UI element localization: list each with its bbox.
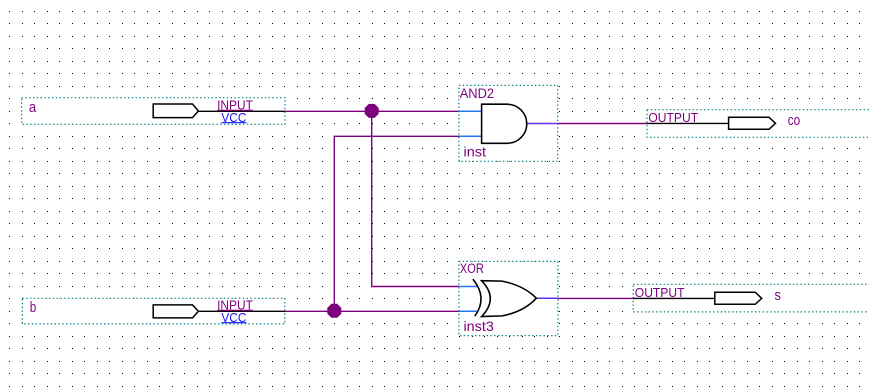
input pin b [22,298,285,325]
svg-text:XOR: XOR [460,261,484,276]
svg-text:AND2: AND2 [460,85,495,101]
svg-text:OUTPUT: OUTPUT [648,110,698,125]
wire: branch from node A down to XOR top input [372,111,460,286]
and-gate U1 AND2 [459,85,558,161]
wire: input b horizontal to XOR bottom input [285,310,459,312]
wire: XOR output to OUTPUT s pin [558,297,633,299]
wire: branch from node B up to AND bottom input [334,136,459,311]
svg-text:inst3: inst3 [464,318,495,334]
xor-gate U2 XOR [459,261,558,336]
wire: input a horizontal to AND top input [285,110,459,112]
svg-text:OUTPUT: OUTPUT [635,285,685,300]
output pin s [633,284,869,312]
svg-text:b: b [30,300,37,316]
node A junction dot [365,104,379,118]
svg-text:inst: inst [464,143,487,159]
white opaque backgrounds of components (cover grid) [22,85,869,335]
svg-text:co: co [788,112,801,129]
input pin a [22,98,285,125]
svg-text:s: s [775,287,781,304]
output pin co [647,110,869,138]
svg-text:a: a [29,100,37,116]
node B junction dot [327,304,341,318]
wire: AND output to OUTPUT co pin [558,123,647,125]
